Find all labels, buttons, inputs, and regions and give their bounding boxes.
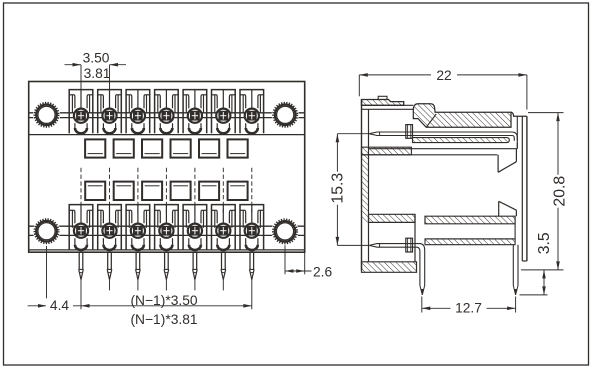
dimension 2.6 right of front view bbox=[284, 245, 286, 274]
side view: strip under upper pin (hatched) bbox=[413, 138, 510, 143]
lower window square 5 bbox=[199, 182, 219, 200]
side view: mid shelf lines bbox=[369, 148, 518, 150]
front pin 4 bbox=[164, 252, 166, 269]
side view: gap lines under tab bbox=[362, 104, 414, 106]
front view: upper rail line bbox=[29, 134, 305, 136]
svg-text:4.4: 4.4 bbox=[50, 298, 70, 313]
svg-text:20.8: 20.8 bbox=[552, 176, 569, 207]
side view: small rib on tab bbox=[378, 96, 387, 99]
side view: step vertical bbox=[414, 214, 416, 261]
side view: plug cavity lower funnel notch bbox=[498, 201, 500, 216]
side view: band shoulder line bbox=[426, 114, 436, 127]
top row terminal cell 5 bbox=[183, 90, 207, 134]
bottom row terminal cell 7 bbox=[240, 205, 264, 250]
side view: thin bottom band (hatched) bbox=[425, 239, 515, 245]
front view: bottom row clamp bar lines bbox=[29, 225, 305, 227]
upper window square 6 bbox=[228, 139, 248, 157]
svg-text:3.50: 3.50 bbox=[83, 51, 110, 66]
front view: lower rail line bbox=[29, 249, 305, 251]
bottom row terminal cell 4 bbox=[155, 205, 179, 250]
front pin 6 bbox=[221, 252, 223, 269]
side view: hatched strip left mid bbox=[362, 147, 412, 155]
side view: right solder pin bbox=[512, 245, 514, 286]
top row terminal cell 2 bbox=[98, 90, 122, 134]
dimension 12.7 bottom bbox=[421, 297, 423, 313]
top row terminal cell 4 bbox=[155, 90, 179, 134]
upper window square 2 bbox=[114, 139, 134, 157]
upper window square 5 bbox=[199, 139, 219, 157]
side view: lower pin clamp bracket bbox=[406, 238, 413, 252]
bottom row terminal cell 2 bbox=[98, 205, 122, 250]
mounting hole 2 bbox=[272, 101, 299, 128]
mounting hole 4 bbox=[271, 218, 298, 245]
bottom row terminal cell 6 bbox=[212, 205, 236, 250]
top row terminal cell 1 bbox=[69, 90, 93, 134]
lower window square 4 bbox=[171, 182, 191, 200]
dimension 15.3 left bbox=[337, 133, 369, 135]
side view: lower right band (hatched) bbox=[425, 216, 515, 224]
upper window square 1 bbox=[85, 139, 105, 157]
side view: latch bump and upper wall band (hatched) bbox=[413, 104, 511, 128]
front view: top row clamp bar lines bbox=[29, 112, 305, 114]
side view: lower contact pin with bend bbox=[369, 244, 425, 286]
side view: left wall bbox=[361, 100, 363, 271]
side view: cavity bottom wall (hatched) bbox=[369, 214, 416, 222]
svg-text:(N−1)*3.81: (N−1)*3.81 bbox=[130, 312, 197, 327]
lower window square 2 bbox=[114, 182, 134, 200]
lower window square 1 bbox=[85, 182, 105, 200]
dimension 22 top bbox=[358, 75, 360, 96]
front pin 1 bbox=[78, 252, 80, 269]
lower window square 6 bbox=[228, 182, 248, 200]
side view: top mounting tab (hatched) bbox=[362, 100, 404, 106]
upper window square 3 bbox=[142, 139, 162, 157]
mounting hole 1 bbox=[33, 101, 60, 128]
dimension 3.50 / 3.81 top bbox=[80, 65, 82, 109]
dashed center lines between rows bbox=[80, 168, 82, 216]
side view: back wall bbox=[521, 116, 523, 261]
front pin 3 bbox=[135, 252, 137, 269]
bottom row terminal cell 3 bbox=[126, 205, 150, 250]
side view: top edge step to back wall bbox=[511, 112, 527, 116]
upper window square 4 bbox=[171, 139, 191, 157]
svg-text:22: 22 bbox=[436, 68, 451, 83]
svg-text:(N−1)*3.50: (N−1)*3.50 bbox=[130, 293, 197, 308]
top row terminal cell 6 bbox=[212, 90, 236, 134]
bottom row terminal cell 1 bbox=[69, 205, 93, 250]
top row terminal cell 7 bbox=[240, 90, 264, 134]
side view: upper pin clamp bracket bbox=[406, 125, 413, 139]
svg-text:12.7: 12.7 bbox=[455, 301, 482, 316]
dimension (N-1)*3.50 / (N-1)*3.81 bottom bbox=[81, 305, 252, 307]
svg-text:3.5: 3.5 bbox=[536, 232, 553, 254]
svg-text:15.3: 15.3 bbox=[329, 173, 346, 204]
front view: connector body outline bbox=[29, 82, 305, 253]
front pin 2 bbox=[107, 252, 109, 269]
dimension 4.4 bottom left bbox=[46, 246, 48, 309]
side view: plug cavity upper funnel notch bbox=[497, 155, 499, 173]
side view: front standoff (hatched) bbox=[362, 262, 417, 273]
side view: upper contact pin bbox=[369, 132, 512, 134]
front pin 7 bbox=[249, 252, 251, 269]
side view: white band lines bbox=[425, 238, 515, 240]
dimension 20.8 right bbox=[528, 112, 564, 114]
svg-text:3.81: 3.81 bbox=[84, 66, 111, 81]
front pin 5 bbox=[192, 252, 194, 269]
mounting hole 3 bbox=[33, 218, 60, 245]
dimension 3.5 right bottom bbox=[520, 294, 548, 296]
top row terminal cell 3 bbox=[126, 90, 150, 134]
svg-text:2.6: 2.6 bbox=[313, 264, 333, 279]
lower window square 3 bbox=[142, 182, 162, 200]
bottom row terminal cell 5 bbox=[183, 205, 207, 250]
